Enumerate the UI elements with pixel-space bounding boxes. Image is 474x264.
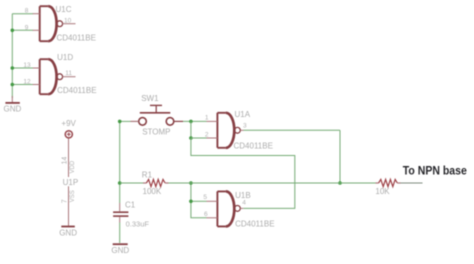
wire U1A out to right vertical	[244, 129, 341, 131]
svg-text:5: 5	[203, 194, 207, 201]
svg-text:4: 4	[242, 200, 246, 207]
wire U1A pin2	[191, 137, 207, 139]
svg-text:R1: R1	[142, 170, 153, 179]
svg-text:+9V: +9V	[61, 119, 76, 128]
node junction R1 net	[189, 181, 193, 185]
wire U1A pin1-pin2 vertical	[190, 121, 192, 138]
svg-text:2: 2	[205, 132, 209, 139]
nand gate U1D	[33, 59, 76, 94]
svg-text:U1A: U1A	[235, 110, 251, 119]
wire pin8 net	[12, 13, 33, 15]
resistor 10K	[376, 179, 401, 186]
wire U1B pin5	[191, 200, 207, 202]
svg-text:U1D: U1D	[57, 53, 73, 62]
switch SW1 STOMP	[131, 105, 184, 125]
svg-text:1: 1	[205, 114, 209, 121]
supply +9V	[65, 131, 72, 138]
node junction U1B pin5	[189, 200, 193, 204]
svg-text:6: 6	[204, 211, 208, 218]
svg-text:CD4011BE: CD4011BE	[234, 141, 273, 150]
svg-text:10K: 10K	[375, 187, 390, 196]
node junction SW1 left	[118, 120, 122, 124]
svg-text:9: 9	[25, 24, 29, 31]
wire feedback U1B out to U1A in	[191, 138, 295, 208]
nand gate U1A	[207, 113, 244, 148]
svg-text:GND: GND	[59, 229, 77, 238]
svg-text:3: 3	[243, 122, 247, 129]
node junction R1 left	[118, 181, 122, 185]
resistor R1	[143, 179, 169, 186]
svg-text:CD4011BE: CD4011BE	[57, 86, 96, 95]
power part U1P pins 14/7	[68, 138, 70, 177]
wire SW1 left stub	[120, 120, 131, 122]
wire pin12 net	[12, 84, 33, 86]
node junction pin12	[11, 83, 15, 87]
svg-text:SW1: SW1	[141, 94, 159, 103]
wire main net at y183 left of R1	[120, 182, 143, 184]
wire SW1 left vertical	[119, 121, 121, 203]
svg-text:7: 7	[61, 199, 68, 203]
wire main net x340 to 10K	[340, 182, 376, 184]
svg-text:CD4011BE: CD4011BE	[57, 34, 96, 43]
svg-text:10: 10	[64, 17, 72, 24]
svg-text:11: 11	[65, 70, 72, 77]
svg-text:STOMP: STOMP	[142, 128, 170, 137]
wire SW1 right to U1A pin1	[183, 120, 207, 122]
node junction pin9	[11, 29, 15, 33]
ground power rail	[61, 226, 75, 228]
svg-text:To NPN base: To NPN base	[403, 164, 467, 178]
svg-text:C1: C1	[125, 200, 136, 209]
svg-text:U1P: U1P	[63, 178, 79, 187]
wire 10K to NPN base	[401, 182, 423, 184]
svg-text:VDD: VDD	[70, 160, 76, 173]
ground C1	[113, 243, 128, 245]
svg-text:VSS: VSS	[70, 190, 76, 202]
wire pin13 net	[12, 67, 33, 69]
wire GND net vertical (left)	[11, 14, 13, 98]
node junction x340	[338, 181, 342, 185]
svg-text:GND: GND	[111, 246, 129, 255]
svg-text:100K: 100K	[143, 187, 162, 196]
wire vertical x340	[339, 130, 341, 183]
ground left	[11, 96, 13, 102]
node junction pin13	[11, 66, 15, 70]
svg-text:U1B: U1B	[235, 191, 251, 200]
node junction U1A pin2	[189, 136, 193, 140]
svg-text:CD4011BE: CD4011BE	[235, 220, 274, 229]
svg-text:0.33uF: 0.33uF	[126, 219, 150, 228]
svg-text:12: 12	[23, 78, 31, 85]
wire C1 to GND	[119, 223, 121, 244]
node junction U1A pin1	[189, 120, 193, 124]
nand gate U1C	[33, 6, 76, 41]
capacitor C1	[113, 203, 128, 223]
wire U1B input net	[191, 183, 207, 218]
svg-text:8: 8	[25, 8, 29, 15]
svg-text:GND: GND	[4, 105, 22, 114]
svg-text:13: 13	[23, 62, 31, 69]
svg-text:14: 14	[61, 157, 68, 165]
wire pin9 net	[12, 29, 33, 31]
svg-text:U1C: U1C	[56, 5, 72, 14]
nand gate U1B	[207, 191, 244, 226]
wire main net between R1 and x340	[169, 182, 341, 184]
